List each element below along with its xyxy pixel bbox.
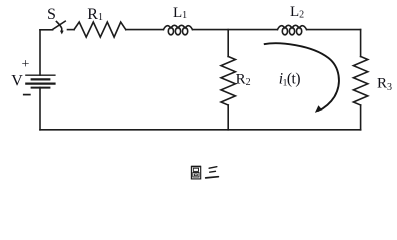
wire: top rail switch-to-R1	[68, 29, 75, 31]
svg-text:R3: R3	[377, 76, 392, 93]
inductor L1 humps	[163, 25, 192, 29]
wire: top rail L2-to-right corner	[307, 29, 361, 31]
switch S closing arrow	[56, 22, 61, 32]
battery plate long thin top	[25, 74, 55, 76]
svg-text:R1: R1	[87, 6, 103, 23]
inductor L2 loops	[282, 28, 287, 35]
wire: R2 branch bottom stub	[227, 105, 229, 130]
wire: right vertical top stub	[360, 30, 362, 57]
mesh current arrow i1(t) arc	[264, 43, 339, 111]
battery V plates	[25, 75, 55, 87]
wire: left vertical (top corner to battery +)	[39, 30, 41, 75]
inductor L1 loops	[168, 28, 173, 35]
battery plate short thick	[31, 78, 51, 80]
resistor R2 zigzag	[221, 57, 235, 106]
wire: top rail R1-to-L1	[126, 29, 164, 31]
wire: top rail L1-to-L2 (through node)	[193, 29, 278, 31]
svg-text:V: V	[11, 72, 23, 89]
wire: bottom rail	[40, 129, 361, 131]
label - (battery)	[23, 94, 31, 96]
battery plate long thick	[25, 82, 55, 84]
wire: top rail left segment (corner to switch)	[40, 29, 53, 31]
switch arrow head	[60, 31, 64, 35]
mesh current arrow head	[315, 105, 323, 113]
wire: right vertical bottom stub	[360, 105, 362, 130]
resistor R3 zigzag	[353, 57, 367, 106]
wire: left vertical (battery - to bottom corner)	[39, 88, 41, 130]
svg-text:L1: L1	[173, 5, 187, 21]
battery plate short bottom	[31, 87, 51, 89]
switch S blade	[53, 21, 66, 29]
caption 三 (three)	[206, 167, 219, 178]
inductor L2 humps	[277, 25, 306, 29]
svg-text:R2: R2	[236, 71, 251, 88]
svg-text:S: S	[47, 6, 56, 23]
caption 圖 (Figure)	[191, 166, 201, 179]
resistor R1 zigzag	[74, 22, 126, 37]
svg-text:L2: L2	[290, 4, 304, 20]
svg-text:i1(t): i1(t)	[279, 70, 301, 88]
wire: R2 branch top stub	[227, 30, 229, 57]
svg-text:+: +	[22, 57, 30, 72]
